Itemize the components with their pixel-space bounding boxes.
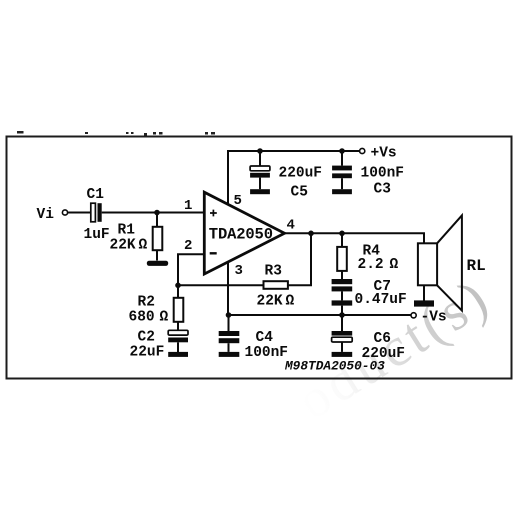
svg-text:C2: C2 (138, 330, 155, 346)
ground below C2 (168, 352, 188, 357)
-Vs rail (228, 314, 411, 316)
svg-text:1uF: 1uF (84, 227, 110, 243)
svg-text:1: 1 (184, 198, 192, 214)
resistor R2 (177, 285, 179, 298)
svg-text:22uF: 22uF (130, 345, 165, 361)
ground below R1 (147, 261, 168, 266)
ground below C3 (332, 189, 352, 194)
capacitor C3 (341, 151, 343, 166)
resistor R3 (264, 281, 288, 289)
wire pin3 down to -Vs rail (227, 262, 229, 316)
ground below C6 (332, 352, 353, 357)
svg-text:R1: R1 (118, 223, 136, 239)
svg-text:RL: RL (467, 257, 486, 275)
svg-text:100nF: 100nF (245, 345, 289, 361)
svg-text:C6: C6 (374, 331, 391, 347)
resistor R1 (156, 213, 158, 228)
capacitor C7 (332, 279, 353, 284)
svg-text:C4: C4 (256, 330, 274, 346)
svg-text:M98TDA2050-03: M98TDA2050-03 (284, 359, 385, 374)
node on rail at C3 (339, 148, 345, 154)
capacitor C4 (228, 315, 230, 331)
border frame (7, 137, 512, 379)
svg-text:100nF: 100nF (361, 166, 405, 182)
svg-text:2: 2 (184, 238, 192, 254)
op-amp U1 TDA2050 (204, 192, 284, 274)
svg-text:R2: R2 (138, 295, 155, 311)
node on rail at C5 (257, 148, 263, 154)
capacitor C6 (341, 315, 343, 331)
svg-text:Ω: Ω (286, 294, 295, 310)
wire C1 to pin1 (102, 212, 204, 214)
wire pin5 up and +Vs rail (228, 151, 360, 206)
resistor R4 (341, 233, 343, 247)
capacitor C2 (168, 330, 188, 335)
svg-text:C5: C5 (291, 185, 308, 201)
ground below C4 (219, 352, 240, 357)
capacitor C1 (91, 203, 96, 222)
node junction at R1 (154, 210, 160, 216)
svg-text:220uF: 220uF (279, 166, 323, 182)
svg-text:R3: R3 (265, 264, 282, 280)
wire pin2 to feedback node (178, 254, 204, 285)
node C7/C6 (339, 312, 345, 318)
svg-text:2.2: 2.2 (358, 257, 384, 273)
wire input to C1 (68, 212, 91, 214)
-Vs terminal (411, 313, 416, 318)
svg-text:C3: C3 (374, 182, 391, 198)
svg-text:C1: C1 (87, 187, 105, 203)
svg-text:5: 5 (234, 193, 242, 209)
svg-text:Ω: Ω (390, 257, 399, 273)
svg-text:680: 680 (129, 310, 155, 326)
svg-text:Ω: Ω (160, 310, 169, 326)
capacitor C5 (259, 151, 261, 166)
ground below C5 (250, 189, 270, 194)
node output-R4 (339, 231, 345, 237)
speaker RL (418, 243, 437, 285)
wire feedback right segment up to output (288, 233, 311, 285)
wire output rail (285, 233, 425, 243)
svg-text:3: 3 (235, 263, 243, 279)
ground below speaker (414, 300, 434, 306)
svg-text:0.47uF: 0.47uF (355, 292, 407, 308)
svg-text:22K: 22K (257, 294, 283, 310)
svg-text:TDA2050: TDA2050 (209, 226, 273, 244)
svg-text:Ω: Ω (139, 238, 148, 254)
svg-text:+Vs: +Vs (371, 146, 397, 162)
node pin3/C4 (226, 312, 232, 318)
+Vs terminal (360, 148, 365, 153)
wire feedback left segment (178, 284, 264, 286)
svg-text:22K: 22K (110, 238, 136, 254)
svg-text:-Vs: -Vs (421, 310, 447, 326)
svg-text:4: 4 (287, 218, 295, 234)
node feedback junction (175, 283, 181, 289)
svg-text:Vi: Vi (37, 207, 55, 223)
cropped text fragments above frame (17, 131, 215, 136)
node output-feedback (308, 231, 314, 237)
